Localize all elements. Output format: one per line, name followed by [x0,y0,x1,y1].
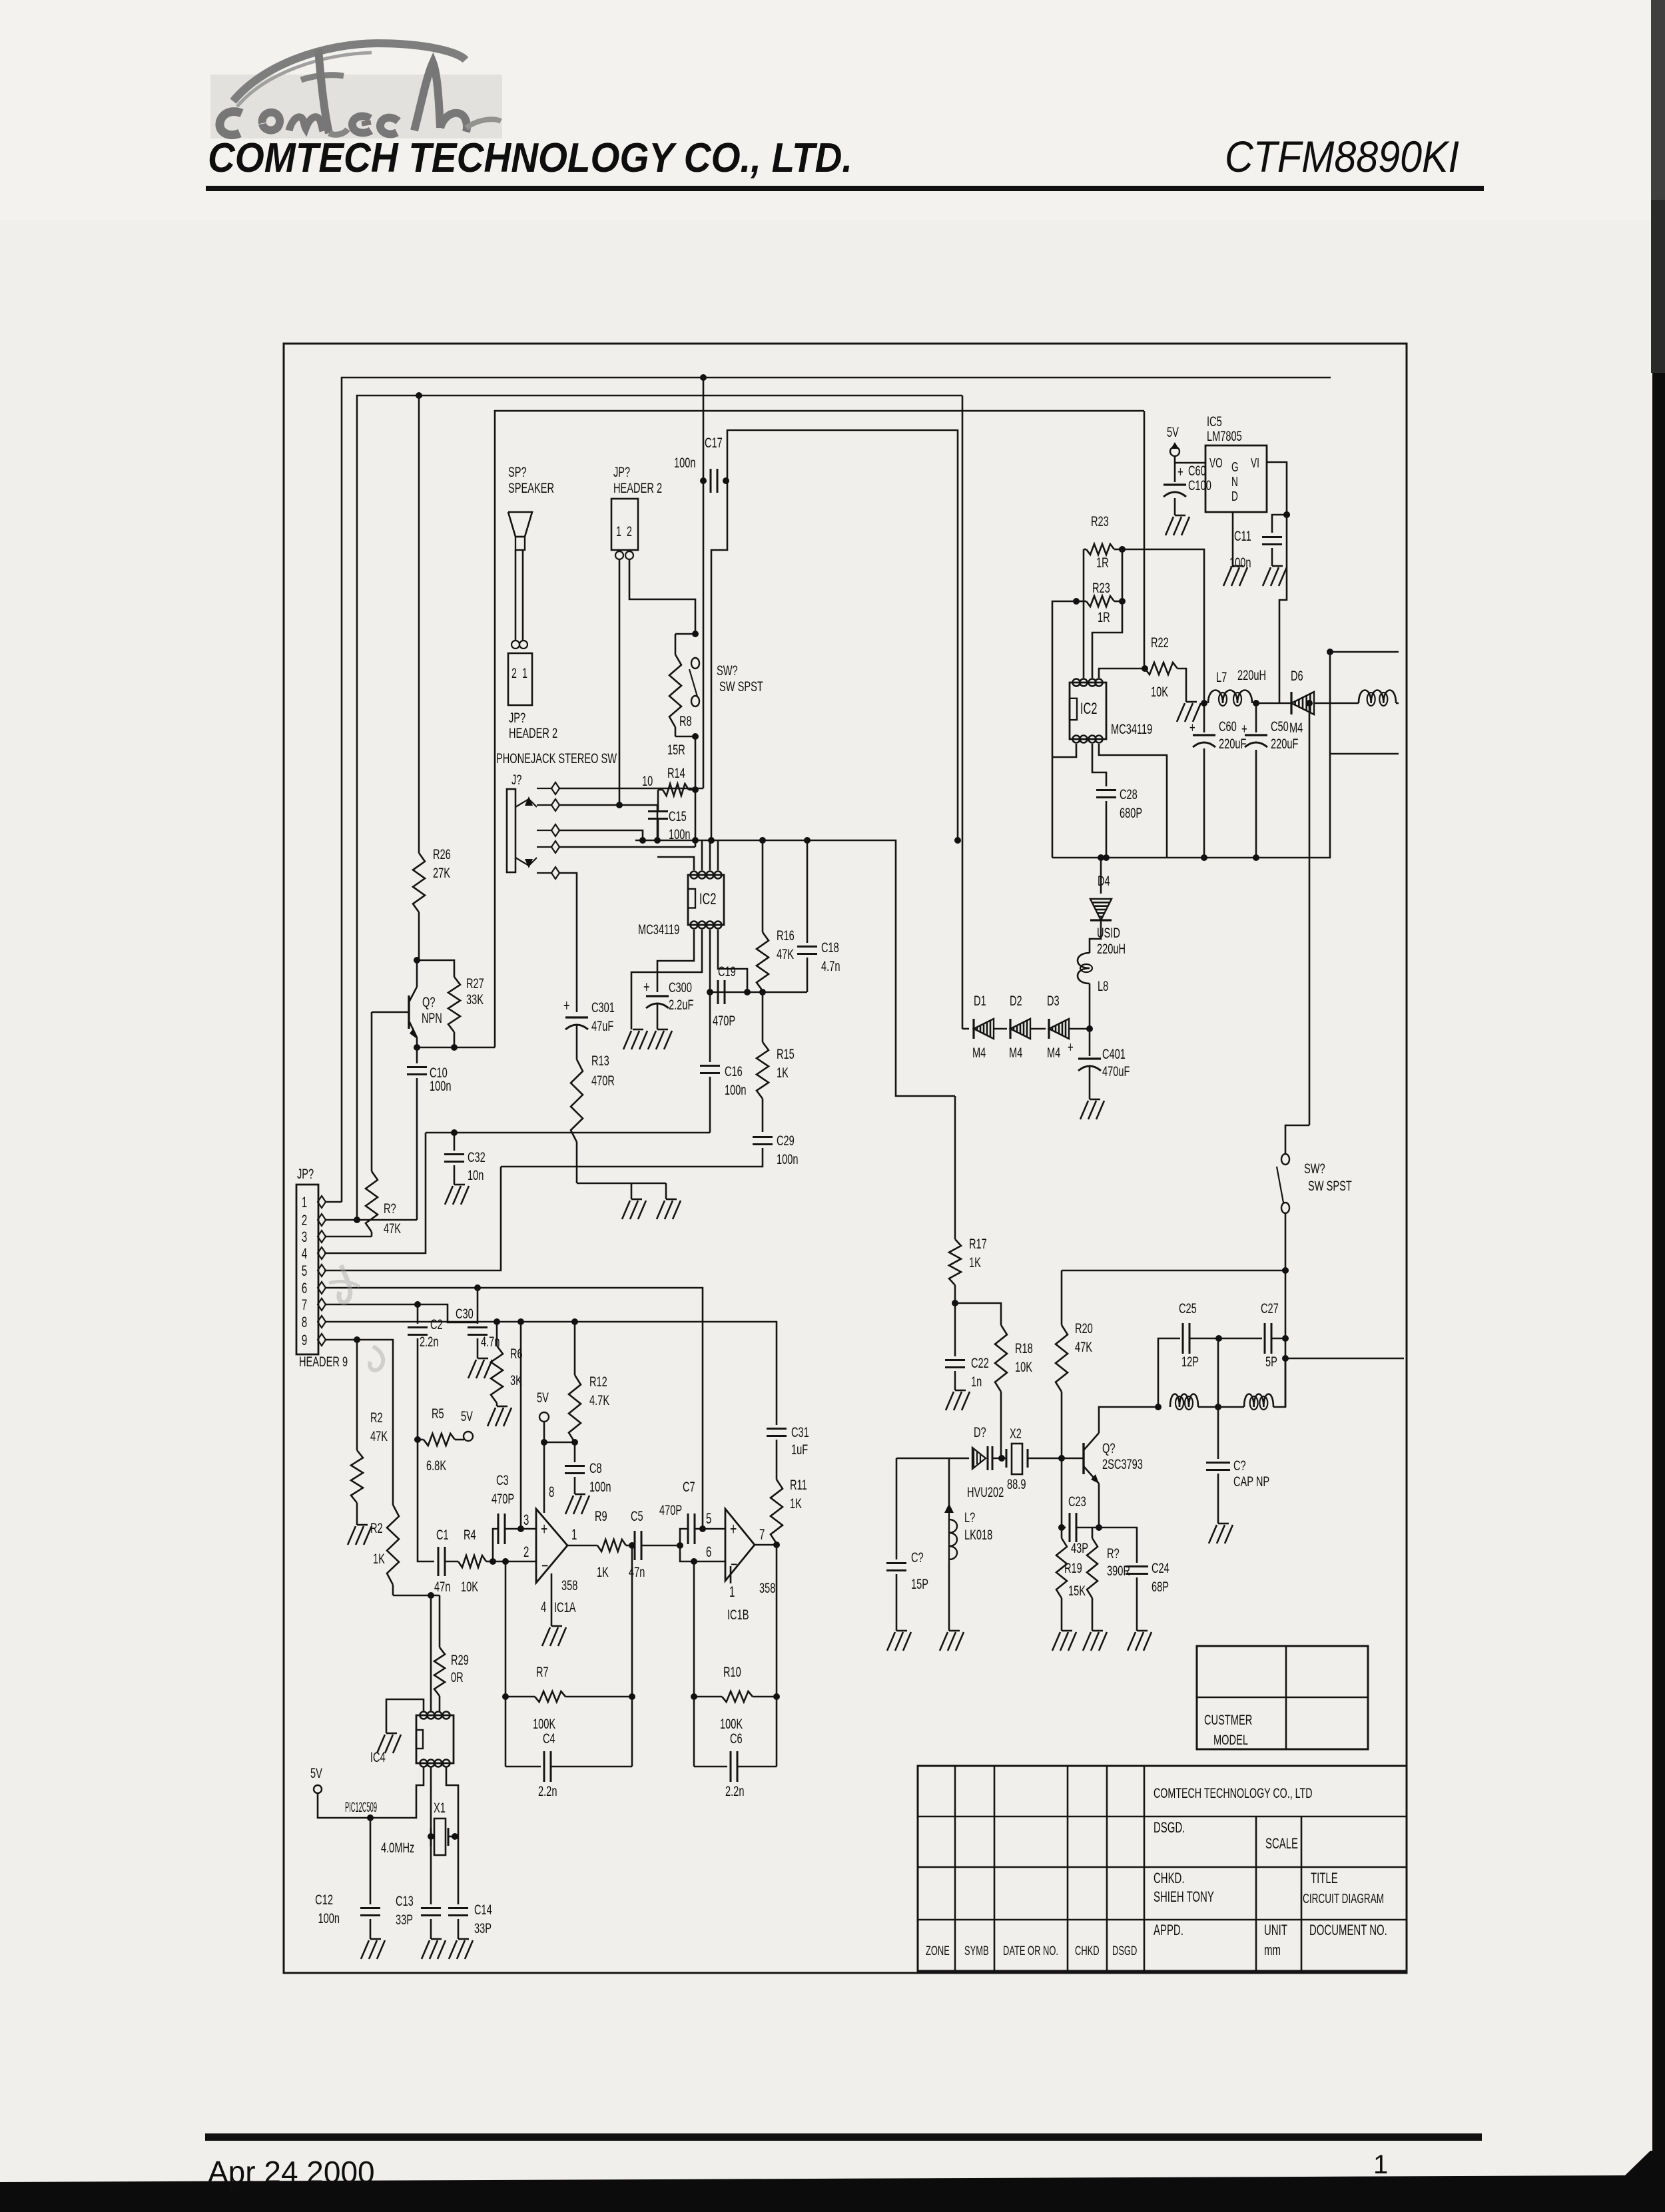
svg-text:47uF: 47uF [591,1017,613,1034]
svg-text:3: 3 [523,1512,529,1528]
resistor R18 10K [955,1303,1033,1458]
svg-text:1K: 1K [777,1064,789,1081]
svg-text:1: 1 [571,1526,577,1543]
svg-text:PIC12C509: PIC12C509 [345,1800,377,1815]
capacitor C1 47n [434,1526,450,1595]
resistor R2 1K [370,1505,399,1595]
scan black band bottom edge [0,2151,1665,2212]
op-amp IC2 MC34119 (left) [688,872,724,929]
svg-text:1: 1 [302,1194,307,1211]
ground C24 [1128,1631,1152,1651]
svg-text:MODEL: MODEL [1213,1731,1248,1748]
ic IC5 LM7805 [1205,413,1267,512]
svg-text:100K: 100K [720,1715,743,1732]
wire emitter node [417,1037,495,1047]
wire jack row3 [559,830,643,840]
ground C30 [468,1358,492,1378]
wire pin2 [326,1219,417,1221]
ground C15P [887,1631,911,1651]
svg-text:15P: 15P [911,1575,928,1592]
svg-text:R22: R22 [1151,634,1169,651]
wire IC2R pin1 stub [0,0,1,1]
svg-text:R16: R16 [777,927,795,944]
svg-text:C18: C18 [821,939,839,956]
svg-text:SYMB: SYMB [964,1944,989,1958]
wire jack pin5 to C301 [559,873,577,1012]
capacitor C60/C100 [1164,462,1211,515]
feedback R10 100K [694,1545,777,1767]
ground R13 b [657,1199,681,1219]
svg-text:C8: C8 [589,1460,602,1476]
wire IC4 pin to C13/X1 [430,1767,432,1904]
wire C23 row to C24 [1099,1527,1137,1563]
capacitor C32 10n [444,1133,486,1185]
capacitor C6 2.2n [694,1730,777,1799]
svg-text:R19: R19 [1064,1559,1082,1576]
svg-text:7: 7 [302,1296,307,1313]
svg-text:JP?: JP? [509,709,525,726]
wire to minus input [493,1561,536,1563]
wire VI drop [1267,462,1287,703]
ground CAP NP [1209,1523,1233,1543]
svg-text:R17: R17 [969,1235,987,1252]
resistor R26 27K [413,396,451,960]
svg-text:C401: C401 [1102,1045,1126,1062]
svg-text:D2: D2 [1010,992,1022,1009]
svg-text:3: 3 [302,1229,307,1245]
power 5V (PIC) [310,1765,322,1793]
resistor R15 1K [757,992,795,1132]
svg-text:M4: M4 [1047,1044,1060,1061]
wire R2-1K bottom to IC4 [393,1595,440,1597]
svg-text:C1: C1 [436,1526,449,1543]
wire stub 979 [1330,651,1399,653]
svg-text:C23: C23 [1068,1493,1086,1510]
svg-text:SCALE: SCALE [1265,1835,1298,1852]
capacitor C25 12P [1179,1300,1219,1370]
wire VI to C11 [1272,515,1287,533]
ic IC4 PIC12C509 [416,1712,454,1767]
capacitor C19 470P [713,963,736,1029]
wire pin1 [326,1201,342,1203]
svg-text:1: 1 [616,523,621,539]
svg-text:4: 4 [302,1245,307,1262]
svg-text:Q?: Q? [422,993,435,1010]
svg-text:+: + [1189,719,1195,736]
wire IC4 topleft to gnd [386,1699,424,1733]
resistor R27 33K [419,960,484,1047]
ground R6 [488,1406,511,1426]
resistor R14 10 [642,764,695,796]
header rule [206,186,1484,191]
svg-text:+: + [541,1520,547,1539]
wire R20 top row [1062,1270,1285,1272]
resistor R? 390R [1087,1527,1130,1631]
wire IC2R pin5 drop [0,0,1,1]
svg-text:470R: 470R [591,1072,615,1089]
capacitor C28 680P [1096,786,1142,858]
wire C25C27 mid riser [1217,1338,1219,1407]
svg-text:SW SPST: SW SPST [719,678,763,694]
svg-text:L8: L8 [1098,977,1108,994]
wire to plus input [521,1528,536,1530]
wire IC2R pin4 to R22 [1099,669,1145,678]
svg-text:D4: D4 [1098,872,1110,889]
svg-text:R14: R14 [667,764,685,781]
svg-text:APPD.: APPD. [1154,1922,1183,1938]
svg-text:C300: C300 [669,979,692,995]
wire bus2 drop to diode row [962,396,964,1029]
svg-text:C19: C19 [718,963,736,979]
capacitor C11 100n [1262,537,1282,567]
svg-text:5: 5 [302,1262,307,1279]
svg-text:R12: R12 [589,1373,607,1390]
ground C8 [565,1494,589,1514]
svg-text:C100: C100 [1188,477,1211,493]
ground LK018 [940,1631,964,1651]
wire to X2 [992,1458,1006,1460]
wire SW bottom to jack row [695,736,697,847]
wire IC2L pin stubs top [657,840,718,870]
capacitor C16 100n [700,992,747,1133]
svg-text:X1: X1 [434,1799,446,1816]
ground C32 [445,1185,469,1205]
resistor R13 470R [571,1025,615,1183]
svg-text:1R: 1R [1096,554,1109,571]
svg-text:R11: R11 [790,1476,807,1493]
resistor R5 6.8K [418,1405,464,1474]
svg-text:2: 2 [627,523,632,539]
svg-text:DSGD: DSGD [1112,1944,1137,1958]
svg-text:5V: 5V [537,1389,549,1406]
svg-text:8: 8 [302,1314,307,1330]
svg-text:15K: 15K [1068,1582,1086,1599]
capacitor C14 33P [448,1901,492,1939]
svg-text:R5: R5 [432,1405,444,1422]
svg-text:C?: C? [911,1549,924,1565]
svg-text:2: 2 [523,1543,529,1560]
wire switch to rows [1285,1213,1287,1407]
ground C12 [361,1939,385,1959]
capacitor C5 47n [626,1508,680,1580]
resistor R22 10K [1145,634,1186,702]
phonejack J? [507,771,537,872]
svg-text:33P: 33P [474,1920,492,1936]
diode D? HVU202 [967,1424,1004,1500]
svg-text:12P: 12P [1181,1353,1199,1370]
ground C401 [1080,1099,1104,1119]
wire bus1 top [342,378,1331,1202]
power 5V (IC5) [1167,423,1179,456]
inductor row left [1170,1394,1218,1410]
svg-text:680P: 680P [1120,804,1142,821]
svg-text:X2: X2 [1010,1425,1022,1442]
resistor R9 1K [595,1508,626,1580]
table title block [918,1766,1407,1971]
wire antenna drop jog [1285,1125,1309,1154]
svg-text:2.2uF: 2.2uF [669,996,693,1013]
capacitor C29 100n [501,1132,799,1167]
svg-text:R2: R2 [370,1409,383,1426]
svg-text:CTFM8890KI: CTFM8890KI [1225,132,1459,181]
op-amp IC1B 358 [725,1509,775,1623]
resistor R4 10K [445,1526,493,1595]
svg-text:47K: 47K [384,1220,402,1237]
svg-text:IC5: IC5 [1207,413,1222,429]
svg-text:88.9: 88.9 [1007,1476,1026,1492]
svg-text:HEADER 9: HEADER 9 [299,1353,348,1370]
svg-text:6.8K: 6.8K [426,1457,447,1474]
ic IC2 MC34119 (right) [1070,679,1106,743]
header JP? HEADER 2 (speaker) [508,653,557,741]
wire R23 row to L7 riser [1144,549,1204,703]
ground R390 [1083,1631,1107,1651]
svg-text:R?: R? [1107,1545,1120,1561]
capacitor C8 100n [565,1442,611,1495]
diode D3 M4 [1030,992,1069,1061]
svg-text:L7: L7 [1216,669,1227,685]
wire IC1B output [755,1544,777,1546]
svg-text:220uH: 220uH [1097,940,1126,957]
svg-text:R29: R29 [451,1651,469,1668]
svg-text:2.2n: 2.2n [725,1783,744,1799]
svg-text:+: + [1068,1039,1074,1055]
wire R13 bottom [577,1183,666,1199]
wire C30 riser [477,1288,479,1324]
diode D2 M4 [994,992,1030,1061]
wire 5V to opamp [544,1422,575,1508]
svg-text:C32: C32 [468,1149,486,1165]
svg-text:D3: D3 [1047,992,1060,1009]
switch SW? SW SPST (right) [1277,1154,1352,1213]
wire IC2R bottom stubs [1052,744,1167,858]
svg-text:C11: C11 [1234,527,1251,544]
ground C14 [449,1939,473,1959]
svg-text:2.2n: 2.2n [538,1783,557,1799]
wire bus2 [357,396,962,1220]
wire R23 lower to bus-left [1052,601,1076,858]
svg-text:470P: 470P [659,1502,682,1518]
svg-text:100n: 100n [318,1910,340,1926]
capacitor C3 470P [492,1472,521,1561]
capacitor C60 220uF [1189,718,1246,752]
svg-text:LM7805: LM7805 [1207,427,1242,444]
wire pin6 long [326,1288,703,1527]
svg-text:33P: 33P [396,1911,413,1928]
power 5V (R5) [461,1408,473,1441]
resistor R29 0R [434,1595,469,1711]
svg-text:R23: R23 [1092,579,1110,596]
svg-text:HEADER 2: HEADER 2 [613,479,662,496]
svg-text:R8: R8 [679,712,692,729]
capacitor C27 5P [1219,1300,1285,1370]
speaker SP? [508,463,554,649]
wire jack row2 [559,804,657,806]
svg-text:100n: 100n [777,1151,799,1167]
svg-text:C14: C14 [474,1901,492,1918]
svg-text:IC1B: IC1B [727,1606,749,1623]
svg-text:33K: 33K [466,991,484,1007]
svg-text:J?: J? [511,771,521,788]
svg-text:220uF: 220uF [1219,735,1246,752]
junction C7 [677,1542,683,1549]
svg-text:UNIT: UNIT [1264,1922,1287,1938]
footer rule [205,2133,1482,2141]
svg-text:47K: 47K [777,946,795,962]
wire C16 row left [426,1132,710,1134]
svg-text:Apr 24 2000: Apr 24 2000 [208,2155,375,2189]
crystal X2 88.9 [1006,1425,1028,1492]
svg-text:R23: R23 [1091,513,1109,529]
svg-text:C31: C31 [791,1424,809,1440]
svg-text:1R: 1R [1098,609,1110,625]
svg-text:470P: 470P [713,1012,735,1029]
svg-text:+: + [643,978,650,996]
svg-text:358: 358 [759,1579,775,1596]
svg-text:1K: 1K [790,1495,802,1512]
svg-text:470P: 470P [492,1490,514,1507]
wire pin9 [326,1340,393,1505]
wire R20 to C23 [1061,1458,1063,1527]
wire to IC1B plus [703,1528,725,1530]
wire C60 lower [0,0,1,1]
wire R23 upper to wire3 drop [1122,411,1144,669]
capacitor C24 68P [1126,1559,1169,1631]
svg-text:+: + [1177,463,1183,480]
svg-text:C50: C50 [1271,718,1289,734]
svg-text:100n: 100n [430,1077,452,1094]
wire C17 right branch [711,481,727,840]
wire pin4 riser [324,1133,426,1253]
svg-text:Q?: Q? [1102,1440,1115,1456]
inductor row right [1218,1358,1285,1410]
capacitor C23 43P [1062,1493,1099,1556]
svg-text:IC1A: IC1A [554,1599,576,1615]
junction on bus1 [700,374,707,381]
svg-text:R9: R9 [595,1508,607,1524]
svg-text:−: − [541,1556,548,1575]
svg-text:100n: 100n [674,454,696,471]
svg-text:358: 358 [561,1577,577,1593]
svg-text:390R: 390R [1107,1562,1130,1579]
header JP? HEADER 2 (top) [611,463,662,559]
svg-text:C13: C13 [396,1892,414,1909]
svg-text:C16: C16 [725,1063,743,1079]
wire pin5 riser [324,1167,501,1270]
feedback R7 100K [505,1545,632,1767]
svg-text:0R: 0R [451,1669,464,1685]
svg-text:C5: C5 [631,1508,643,1524]
capacitor C? CAP NP [1206,1407,1269,1523]
svg-text:C4: C4 [543,1730,555,1747]
capacitor C31 1uF [767,1424,809,1458]
inductor L7 220uH [1208,667,1266,706]
svg-text:SP?: SP? [508,463,527,480]
wire pin7 [326,1304,478,1322]
wire IC2L pin stubs bottom [631,930,747,1029]
svg-text:CHKD: CHKD [1075,1944,1100,1958]
svg-text:6: 6 [302,1280,307,1296]
header JP? HEADER 9 [296,1165,348,1370]
resistor R19 15K [1056,1527,1082,1631]
svg-text:2: 2 [302,1212,307,1229]
wire Q collector up [1099,1407,1158,1433]
wire pin8 long [326,1322,777,1425]
svg-text:1: 1 [729,1583,735,1600]
capacitor C12 100n [315,1818,380,1939]
svg-text:−: − [731,1555,737,1574]
svg-text:5V: 5V [310,1765,322,1781]
svg-text:MC34119: MC34119 [638,921,679,938]
svg-text:M4: M4 [972,1044,986,1061]
svg-text:mm: mm [1264,1942,1281,1958]
capacitor C50 220uF [1241,703,1298,858]
resistor R2 47K (left) [351,1340,388,1525]
capacitor C? 15P [886,1458,928,1631]
svg-text:2: 2 [511,665,517,681]
svg-text:1n: 1n [971,1373,982,1390]
resistor R8 15R [667,634,695,758]
wire pin3 riser [520,1322,522,1529]
svg-text:2SC3793: 2SC3793 [1102,1456,1143,1472]
wire osc row left [896,1458,969,1460]
svg-text:SHIEH TONY: SHIEH TONY [1154,1888,1214,1905]
svg-text:DSGD.: DSGD. [1154,1819,1185,1836]
svg-text:JP?: JP? [297,1165,314,1182]
svg-text:COMTECH TECHNOLOGY CO., LTD: COMTECH TECHNOLOGY CO., LTD [1154,1785,1313,1800]
svg-text:6: 6 [706,1543,711,1560]
capacitor C17 100n [674,434,723,493]
svg-text:SPEAKER: SPEAKER [508,479,554,496]
svg-text:HEADER 2: HEADER 2 [509,724,557,741]
svg-text:47K: 47K [1075,1338,1093,1355]
wire jack row4 [559,846,695,848]
wire header2 pin1 down [619,559,621,805]
wire pin2 riser to C10 [0,0,1,1]
op-amp IC1A 358 [536,1508,577,1626]
wire jack row1 [559,788,703,790]
svg-text:C3: C3 [496,1472,509,1488]
svg-text:C27: C27 [1261,1300,1279,1316]
resistor R12 4.7K [569,1322,610,1442]
svg-text:10K: 10K [461,1578,479,1595]
inductor (antenna) right [1359,691,1399,706]
svg-text:NPN: NPN [422,1009,442,1026]
svg-text:C28: C28 [1120,786,1138,802]
wire antenna drop [1309,703,1311,1125]
ground R19 [1052,1631,1076,1651]
resistor R11 1K [771,1440,807,1543]
svg-text:4: 4 [541,1599,546,1615]
resistor R23 (lower) 1R [1076,596,1122,607]
switch SW? SW SPST (left) [689,658,763,706]
capacitor C18 4.7n [797,840,840,992]
svg-text:10n: 10n [468,1167,484,1183]
svg-text:C7: C7 [683,1478,695,1495]
wire to IC4 pin direct [430,1595,432,1711]
svg-text:COMTECH TECHNOLOGY CO., LTD.: COMTECH TECHNOLOGY CO., LTD. [208,135,852,181]
svg-text:4.0MHz: 4.0MHz [381,1839,414,1856]
ground IC4 [377,1733,401,1753]
svg-text:8: 8 [549,1484,554,1500]
svg-text:1: 1 [522,665,527,681]
svg-text:G: G [1231,459,1239,474]
transistor Q? 2SC3793 [1084,1433,1143,1484]
wire C17 drop [703,378,705,788]
svg-text:L?: L? [964,1509,975,1525]
svg-text:C12: C12 [315,1891,333,1908]
capacitor C301 47uF [563,997,615,1034]
